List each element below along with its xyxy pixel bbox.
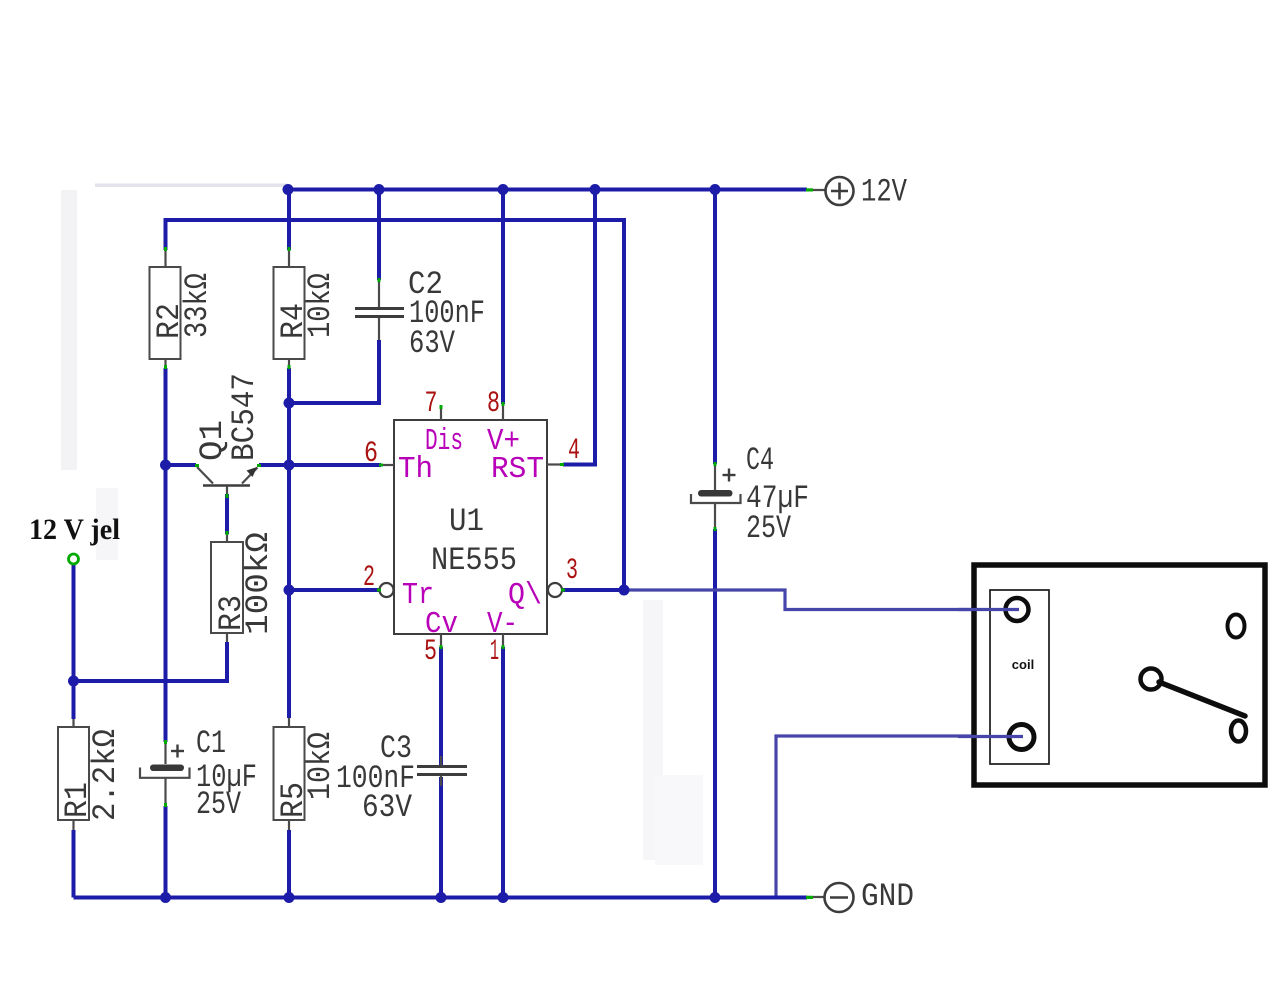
wire R4 bottom down through junctions to R5 top [287, 368, 291, 718]
svg-text:100kΩ: 100kΩ [240, 532, 277, 635]
op-amp U1 NE555 IC body [363, 387, 580, 669]
pin 5 stub [440, 634, 442, 647]
wire pin8 V+ riser [501, 190, 505, 405]
wire Q1 collector node to base column [166, 463, 197, 467]
node gnd-C1 [160, 892, 171, 903]
relay coil pin bottom [1009, 725, 1034, 750]
wire into coil bottom pin [958, 735, 1023, 738]
svg-text:8: 8 [487, 387, 500, 421]
relay coil box [990, 590, 1049, 764]
wire pin1 V- down to rail [501, 647, 505, 898]
svg-text:12V: 12V [861, 174, 908, 211]
relay K1 [958, 565, 1265, 785]
svg-text:coil: coil [1012, 657, 1034, 672]
green pin ticks [164, 188, 813, 899]
svg-text:C4: C4 [746, 442, 774, 479]
relay blade [1159, 682, 1245, 716]
wire GND bottom rail [74, 896, 808, 900]
transistor Q1 BC547 [194, 373, 263, 494]
resistor R2 [150, 250, 217, 368]
wire R1 bottom to rail [72, 830, 76, 898]
svg-text:63V: 63V [409, 325, 456, 362]
wire Q1 base to R3 [225, 494, 229, 534]
svg-text:1: 1 [490, 635, 499, 669]
node rail-RST [590, 184, 601, 195]
wire C2 top riser [377, 190, 381, 281]
wire top +12V rail [288, 188, 807, 192]
svg-text:63V: 63V [362, 789, 413, 826]
svg-text:7: 7 [425, 387, 438, 421]
wire 12V jel input drop [72, 564, 76, 719]
node Q out [619, 585, 630, 596]
node gnd-R5 [284, 892, 295, 903]
node Q1 collector [160, 460, 171, 471]
node Th [284, 460, 295, 471]
ground GND symbol [807, 878, 914, 915]
wire Q1 emitter to Th node [259, 463, 296, 467]
wire R2 bottom to C1 to ground [164, 368, 168, 742]
svg-text:2: 2 [363, 561, 375, 595]
svg-text:25V: 25V [746, 510, 792, 547]
svg-text:10kΩ: 10kΩ [302, 273, 339, 338]
resistor R1 [58, 719, 124, 830]
svg-text:C1: C1 [196, 725, 226, 762]
capacitor C3 [336, 730, 467, 826]
svg-text:33kΩ: 33kΩ [179, 273, 216, 338]
wire Th node to IC pin 6 [289, 463, 381, 467]
node gnd-C3 [436, 892, 447, 903]
wire C4 column [713, 190, 717, 465]
pin 6 stub [381, 464, 394, 466]
wire relay coil top feed [624, 590, 975, 610]
wire C1 bottom to rail [164, 806, 168, 898]
node gnd-V- [498, 892, 509, 903]
node rail-V+ [498, 184, 509, 195]
wire RST riser x=595 [563, 190, 595, 465]
pin 8 stub [502, 404, 504, 420]
svg-text:NE555: NE555 [431, 542, 517, 579]
wire C2 bottom to node at R4 [289, 340, 379, 403]
svg-text:12 V jel: 12 V jel [29, 513, 120, 546]
relay border [974, 565, 1265, 785]
power 12V symbol [807, 174, 908, 211]
node Tr [284, 585, 295, 596]
svg-text:2.2kΩ: 2.2kΩ [87, 729, 124, 821]
resistor R5 [274, 718, 340, 830]
pin 7 stub [440, 407, 442, 420]
relay contact NC [1228, 615, 1245, 638]
wire R4 top riser [287, 190, 291, 251]
pin 1 stub [502, 634, 504, 647]
wire pin 3 output to riser node [563, 588, 624, 592]
relay coil pin top [1006, 598, 1029, 621]
svg-text:U1: U1 [449, 503, 484, 540]
ghost artifacts [61, 190, 77, 470]
svg-text:GND: GND [861, 878, 914, 915]
capacitor C4 polarized [691, 442, 809, 547]
wire C3 bottom to rail [439, 777, 443, 898]
svg-text:25V: 25V [196, 786, 242, 823]
node rail-C2 [374, 184, 385, 195]
pin 2 bubble [380, 583, 394, 597]
svg-text:3: 3 [566, 554, 578, 588]
relay contact common [1141, 669, 1162, 690]
svg-text:RST: RST [491, 452, 544, 487]
node 12 V jel input [29, 513, 120, 564]
svg-text:10kΩ: 10kΩ [302, 732, 339, 800]
node gnd-C4 [710, 892, 721, 903]
capacitor C1 polarized [140, 725, 257, 823]
relay contact NO [1231, 721, 1246, 742]
wire Tr pin 2 [289, 588, 379, 592]
wire R3 bottom to input node [74, 642, 228, 681]
node R4-C2 [284, 398, 295, 409]
input node circle [69, 554, 79, 564]
svg-text:BC547: BC547 [226, 373, 263, 461]
pin 4 stub [547, 463, 563, 465]
capacitor C2 [355, 266, 485, 362]
pin 3 bubble [548, 583, 562, 597]
svg-text:5: 5 [424, 635, 437, 669]
relay body [974, 565, 1265, 785]
node input [68, 676, 79, 687]
svg-text:4: 4 [568, 434, 580, 468]
svg-text:6: 6 [364, 437, 378, 471]
node rail-R4 [283, 184, 294, 195]
svg-text:Th: Th [398, 452, 433, 487]
resistor R3 [211, 532, 277, 642]
wire R5 bottom to rail [287, 830, 291, 898]
wire into coil top pin [958, 608, 1019, 611]
wire R2-top to node over IC (y=220) [166, 220, 625, 590]
resistor R4 [274, 250, 340, 368]
wire pin5 Cv down to C3 [439, 647, 443, 765]
node rail-C4 [710, 184, 721, 195]
wire relay coil bottom return [776, 736, 975, 896]
